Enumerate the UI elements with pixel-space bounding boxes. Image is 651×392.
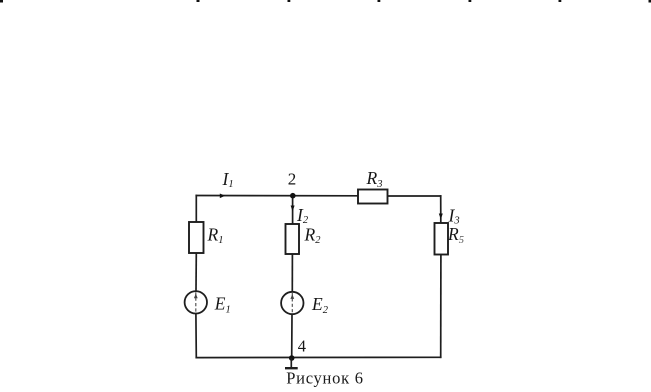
- source E1: [185, 291, 207, 313]
- svg-text:R2: R2: [304, 224, 322, 246]
- resistor R5: [435, 223, 449, 255]
- resistor R2: [286, 224, 300, 254]
- arrow I2 (current direction on middle branch): [291, 206, 295, 212]
- wire left branch E1 to bottom: [195, 313, 197, 357]
- resistor R3: [358, 190, 388, 204]
- resistor R1: [189, 222, 204, 253]
- svg-text:I1: I1: [222, 169, 234, 190]
- wire middle branch node2 to R2: [292, 196, 294, 224]
- svg-text:R1: R1: [207, 224, 224, 246]
- wire middle branch R2 to E2: [291, 254, 293, 292]
- svg-text:E2: E2: [311, 294, 329, 316]
- wire bottom horizontal: [196, 356, 440, 358]
- wire left branch upper segment: [195, 196, 197, 223]
- wire middle branch E2 to node4: [291, 314, 293, 357]
- svg-text:I2: I2: [296, 205, 309, 226]
- wire right branch top to R5: [440, 196, 442, 223]
- wire right branch R5 to bottom: [440, 255, 442, 358]
- svg-text:R3: R3: [366, 168, 383, 190]
- wire R3 right to top-right corner: [388, 195, 441, 197]
- svg-text:E1: E1: [214, 294, 231, 316]
- wire left branch R1 to E1: [195, 253, 197, 291]
- svg-text:2: 2: [288, 169, 297, 188]
- arrow I1 (current direction on top wire): [220, 194, 225, 199]
- arrow I3 (current direction on right branch): [439, 214, 443, 220]
- node 4 junction dot: [289, 355, 295, 361]
- ground: [285, 358, 298, 368]
- svg-text:4: 4: [298, 337, 306, 356]
- top edge cropped text remnant ticks: [0, 0, 651, 3]
- source E2: [281, 292, 303, 314]
- wire top-left horizontal (node1 corner to R3): [196, 195, 358, 197]
- svg-text:Рисунок 6: Рисунок 6: [286, 369, 364, 388]
- node 2 junction dot: [290, 193, 296, 199]
- svg-text:R5: R5: [447, 224, 464, 246]
